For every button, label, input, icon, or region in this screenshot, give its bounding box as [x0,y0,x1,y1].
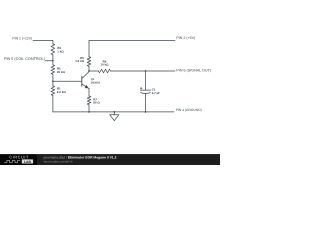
wire ground rail [53,111,174,113]
node R7-ground junction [88,111,90,113]
svg-text:2.2 kΩ: 2.2 kΩ [57,90,66,94]
node base junction [52,80,54,82]
emitter arrow of Q1 [85,85,88,88]
svg-text:2N3903: 2N3903 [91,82,101,85]
svg-text:http://circuitlab.com/c86747/: http://circuitlab.com/c86747/ [44,160,73,163]
svg-text:PIN 1 (+12V): PIN 1 (+12V) [12,36,32,40]
svg-text:josemaria.diaz / Eliminator EG: josemaria.diaz / Eliminator EGR Megane I… [43,155,117,159]
svg-text:PIN 4 (GROUND): PIN 4 (GROUND) [176,108,202,112]
svg-text:1 kΩ: 1 kΩ [57,50,64,54]
wire emitter to R7 [88,88,90,96]
capacitor C1 [145,71,147,90]
resistor R3 [51,44,55,55]
svg-text:10 kΩ: 10 kΩ [101,63,110,67]
footer bar [0,154,220,165]
resistor R1 [52,81,54,86]
resistor R4 [99,69,111,73]
svg-text:20 kΩ: 20 kΩ [57,70,66,74]
svg-text:PIN 5 (COIL CONTROL): PIN 5 (COIL CONTROL) [4,57,46,61]
node ground-symbol junction [113,111,115,113]
footer logo background [0,155,37,166]
logo waveform [4,160,20,162]
wire collector node to R4 [89,70,99,72]
wire PIN1 (+12V) horizontal into left rail [33,40,53,43]
node coil control junction [52,60,54,62]
ground symbol [113,112,115,115]
node C1 signal tap [145,70,147,72]
wire PIN5 (COIL CONTROL) [45,60,53,62]
resistor R2 [52,61,54,65]
wire R4 to PIN6 signal out [111,70,176,72]
svg-text:1.2 kΩ: 1.2 kΩ [75,59,84,63]
svg-text:80 Ω: 80 Ω [93,100,100,104]
svg-text:4.7 µF: 4.7 µF [152,91,160,95]
wire +5V rail to PIN2 [89,40,175,56]
svg-text:PIN 6 (SIGNAL OUT): PIN 6 (SIGNAL OUT) [176,68,211,72]
svg-text:PIN 2 (+5V): PIN 2 (+5V) [176,36,195,40]
resistor R7 [87,96,91,105]
plus sign of C1 [140,87,142,89]
svg-text:LAB: LAB [24,160,31,164]
node collector junction [88,70,90,72]
node C1-ground junction [145,111,147,113]
wire base from divider to Q1 [53,80,82,82]
resistor R5 [87,57,91,67]
logo LAB box [22,159,33,163]
transistor Q1 [81,76,83,86]
